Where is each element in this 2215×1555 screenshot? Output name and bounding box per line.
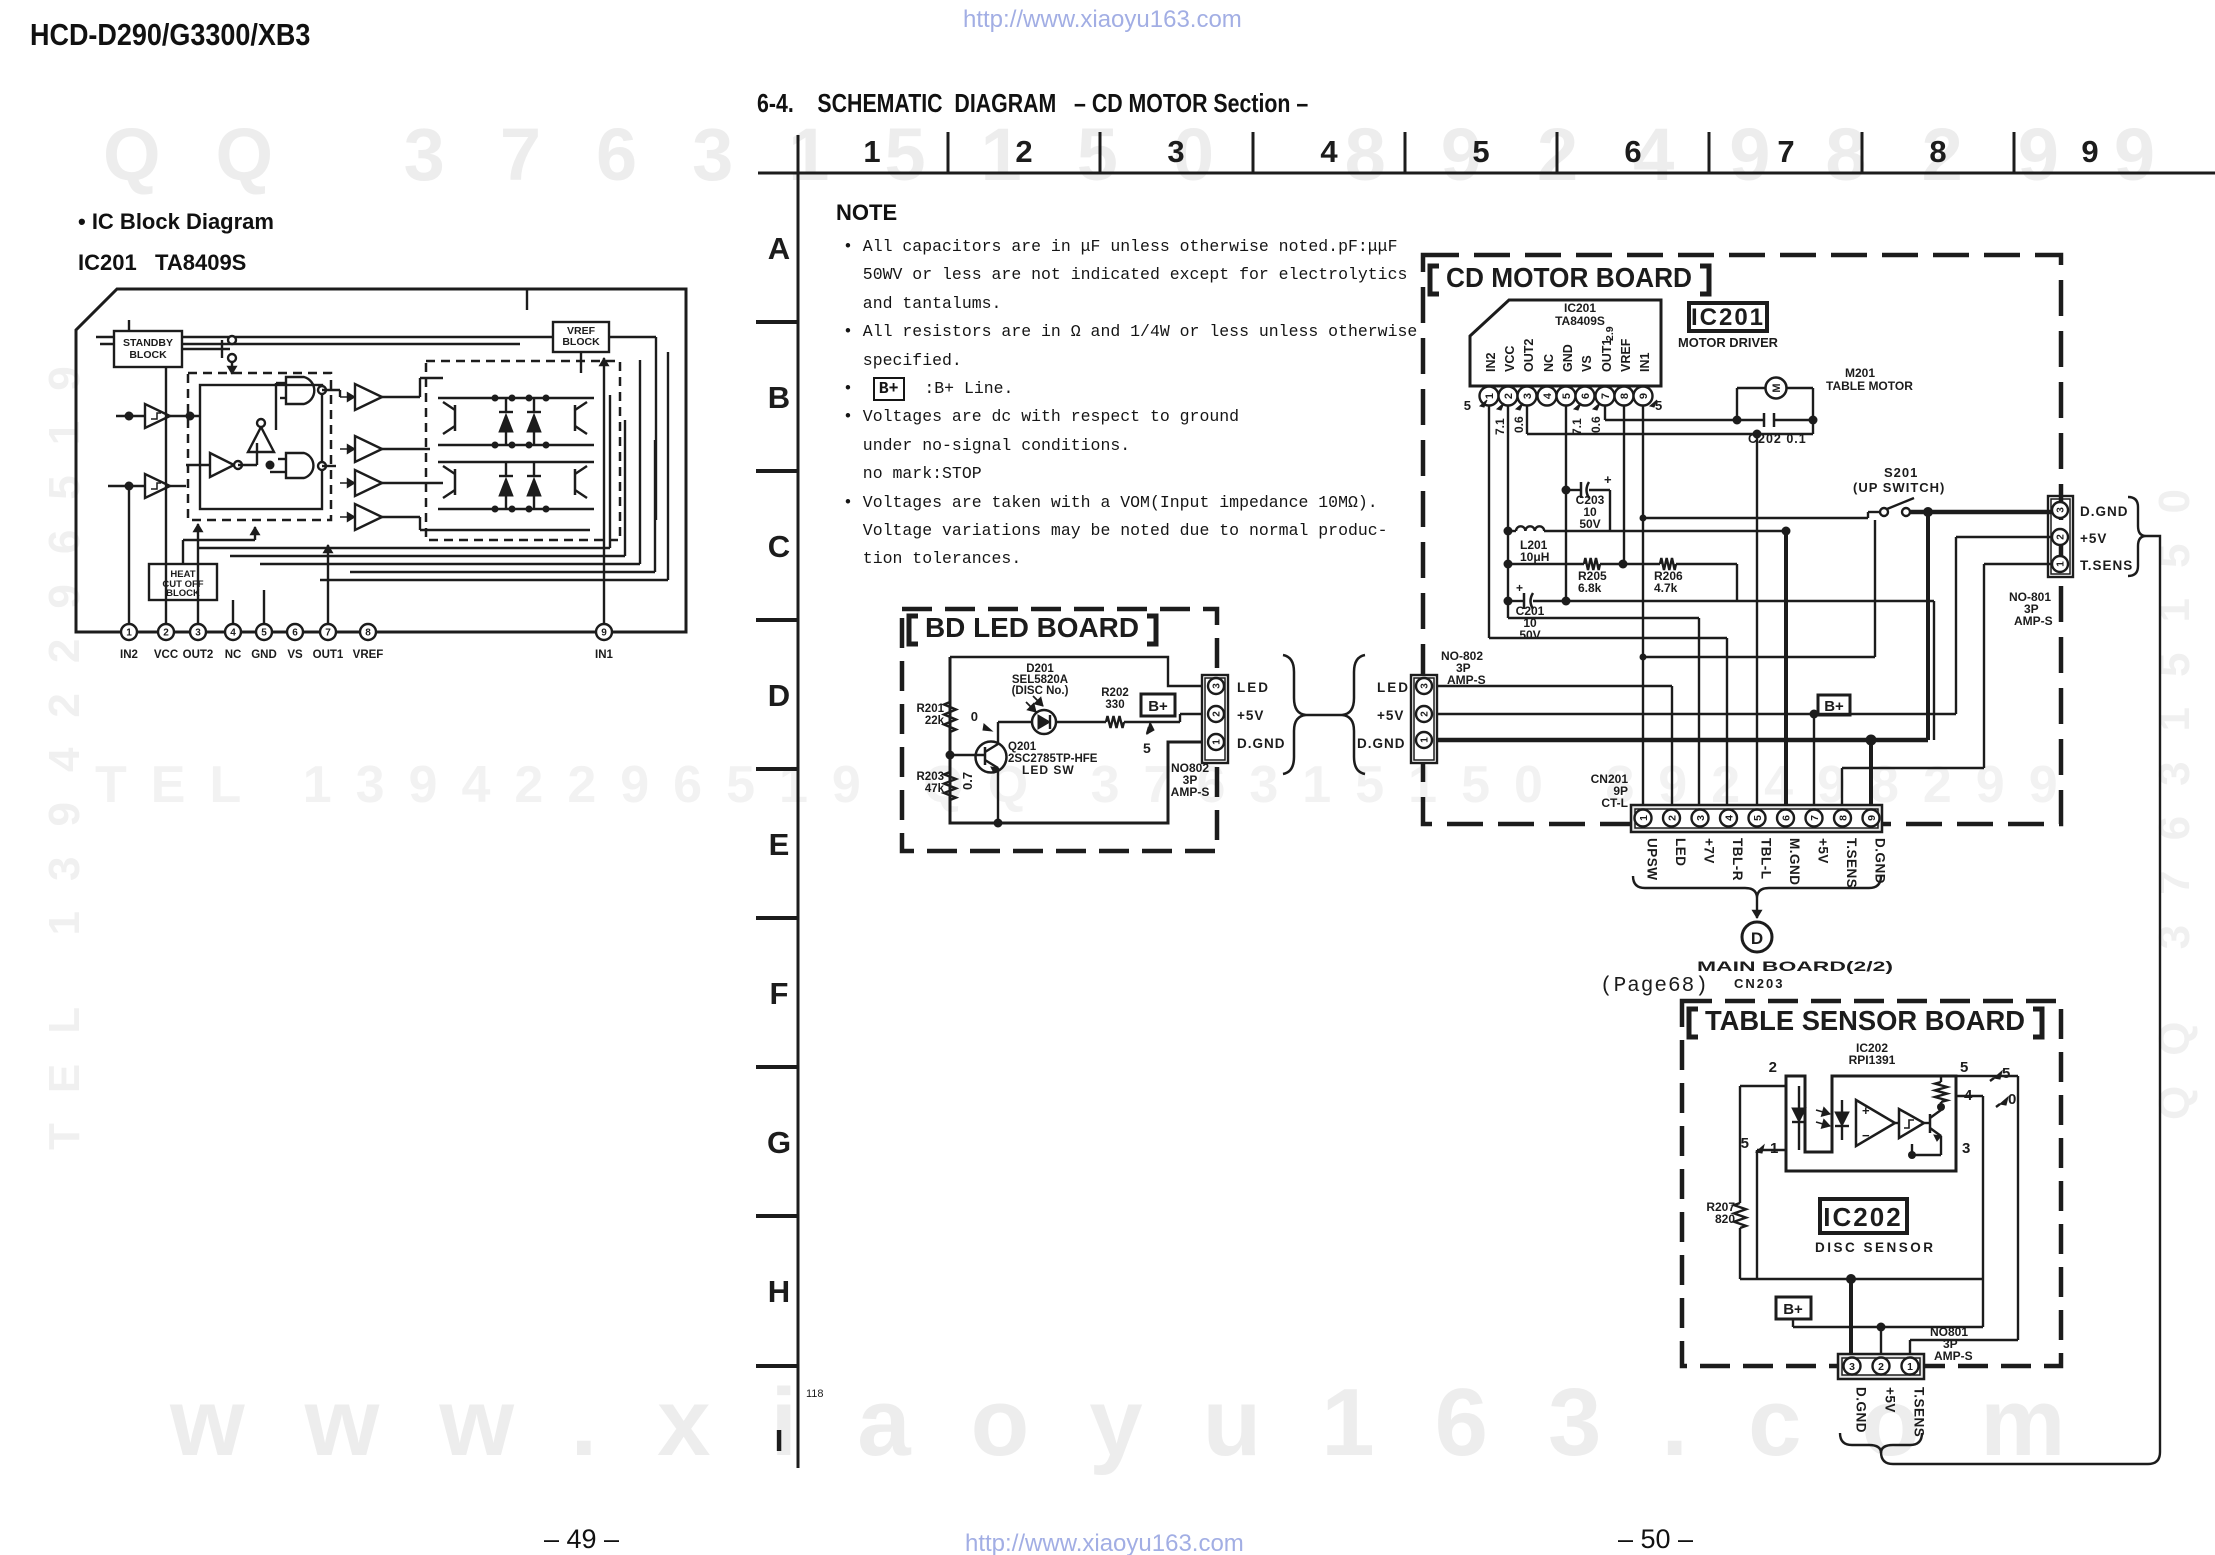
svg-text:+5V: +5V — [1816, 838, 1831, 864]
svg-text:2: 2 — [163, 628, 169, 639]
svg-text:6: 6 — [1780, 815, 1792, 821]
svg-text:LED: LED — [1673, 838, 1688, 867]
svg-text:5: 5 — [1464, 398, 1471, 413]
svg-text:AMP-S: AMP-S — [1934, 1349, 1973, 1363]
svg-text:1: 1 — [1484, 393, 1496, 399]
svg-text:1: 1 — [126, 628, 132, 639]
svg-text:2.9: 2.9 — [1604, 326, 1616, 341]
svg-text:F: F — [770, 976, 789, 1011]
svg-text:BLOCK: BLOCK — [129, 349, 167, 361]
svg-text:(UP SWITCH): (UP SWITCH) — [1853, 480, 1945, 495]
svg-text:5: 5 — [1143, 740, 1151, 756]
svg-text:GND: GND — [1561, 344, 1575, 372]
svg-text:LED: LED — [1237, 680, 1270, 695]
svg-text:1: 1 — [1770, 1140, 1778, 1157]
svg-text:4: 4 — [1542, 392, 1554, 399]
svg-text:4: 4 — [230, 628, 236, 639]
svg-text:1: 1 — [1907, 1361, 1913, 1373]
svg-text:C: C — [768, 529, 790, 564]
svg-text:GND: GND — [251, 649, 277, 661]
svg-text:5: 5 — [1741, 1135, 1749, 1152]
svg-text:I: I — [775, 1423, 784, 1458]
svg-text:UPSW: UPSW — [1645, 838, 1660, 881]
svg-text:+: + — [1862, 1103, 1870, 1118]
svg-text:B+: B+ — [1783, 1301, 1803, 1318]
svg-text:T.SENS: T.SENS — [1912, 1387, 1927, 1437]
svg-text:3: 3 — [1167, 134, 1184, 169]
svg-text:1: 1 — [1212, 739, 1223, 745]
svg-text:3: 3 — [1522, 393, 1534, 399]
svg-text:7: 7 — [325, 628, 331, 639]
svg-text:+5V: +5V — [1377, 708, 1404, 723]
svg-text:RPI1391: RPI1391 — [1849, 1053, 1896, 1067]
svg-text:OUT2: OUT2 — [183, 649, 214, 661]
svg-text:+5V: +5V — [2080, 531, 2107, 546]
svg-text:VS: VS — [287, 649, 303, 661]
svg-text:2: 2 — [2056, 534, 2067, 540]
svg-text:0: 0 — [971, 709, 978, 724]
svg-text:AMP-S: AMP-S — [2014, 614, 2053, 628]
svg-text:CT-L: CT-L — [1601, 796, 1628, 810]
svg-text:TBL-L: TBL-L — [1759, 838, 1774, 879]
svg-text:AMP-S: AMP-S — [1171, 785, 1210, 799]
svg-text:4.7k: 4.7k — [1654, 581, 1678, 595]
svg-text:IC201: IC201 — [1691, 304, 1765, 331]
svg-text:G: G — [767, 1125, 791, 1160]
svg-text:2: 2 — [1212, 711, 1223, 717]
svg-text:9: 9 — [1638, 393, 1650, 399]
svg-text:STANDBY: STANDBY — [123, 337, 173, 349]
svg-text:VCC: VCC — [1503, 346, 1517, 372]
svg-text:D.GND: D.GND — [1357, 736, 1406, 751]
svg-text:R203: R203 — [917, 771, 945, 783]
svg-text:LED SW: LED SW — [1022, 763, 1075, 777]
svg-text:9: 9 — [2081, 134, 2098, 169]
svg-text:IC202: IC202 — [1823, 1202, 1902, 1232]
svg-text:3: 3 — [195, 628, 201, 639]
svg-text:330: 330 — [1105, 699, 1124, 711]
svg-text:−: − — [1862, 1128, 1870, 1143]
svg-text:CN203: CN203 — [1734, 976, 1784, 991]
svg-text:Q201: Q201 — [1008, 741, 1037, 753]
svg-text:+7V: +7V — [1702, 838, 1717, 864]
svg-text:5: 5 — [2002, 1065, 2010, 1082]
svg-text:820: 820 — [1715, 1212, 1735, 1226]
svg-text:VREF: VREF — [1619, 338, 1633, 372]
svg-text:(Page68): (Page68) — [1600, 975, 1709, 998]
svg-text:5: 5 — [1752, 815, 1764, 821]
svg-text:7.1: 7.1 — [1570, 418, 1584, 435]
svg-text:VCC: VCC — [154, 649, 178, 661]
svg-text:NC: NC — [1542, 354, 1556, 372]
svg-text:BD LED BOARD: BD LED BOARD — [925, 612, 1139, 643]
svg-text:50V: 50V — [1519, 628, 1540, 642]
svg-text:3: 3 — [1695, 815, 1707, 821]
svg-text:TA8409S: TA8409S — [1555, 314, 1605, 328]
svg-text:OUT2: OUT2 — [1522, 339, 1536, 372]
svg-text:NC: NC — [225, 649, 242, 661]
svg-text:2: 2 — [1503, 393, 1515, 399]
svg-text:8: 8 — [1619, 393, 1631, 399]
svg-text:9: 9 — [1866, 815, 1878, 821]
svg-text:D.GND: D.GND — [1854, 1387, 1869, 1433]
svg-text:DISC SENSOR: DISC SENSOR — [1815, 1240, 1936, 1255]
svg-text:+5V: +5V — [1237, 708, 1264, 723]
svg-text:5: 5 — [1472, 134, 1489, 169]
svg-text:IN2: IN2 — [1484, 353, 1498, 373]
svg-text:2: 2 — [1420, 711, 1431, 717]
svg-text:6: 6 — [292, 628, 298, 639]
svg-text:+: + — [1516, 581, 1523, 595]
svg-text:T.SENS: T.SENS — [1844, 838, 1859, 888]
svg-text:R201: R201 — [917, 703, 945, 715]
svg-text:MAIN BOARD(2/2): MAIN BOARD(2/2) — [1697, 958, 1893, 974]
svg-text:R202: R202 — [1101, 687, 1129, 699]
svg-text:3: 3 — [1420, 683, 1431, 689]
svg-text:50V: 50V — [1579, 517, 1600, 531]
svg-text:5: 5 — [1561, 393, 1573, 399]
svg-text:B: B — [768, 380, 790, 415]
svg-text:IN1: IN1 — [1638, 353, 1652, 373]
svg-text:0.6: 0.6 — [1589, 416, 1603, 433]
svg-text:AMP-S: AMP-S — [1447, 673, 1486, 687]
svg-text:7: 7 — [1809, 815, 1821, 821]
svg-text:2: 2 — [1878, 1361, 1884, 1373]
svg-text:0: 0 — [2008, 1091, 2016, 1108]
svg-text:3: 3 — [1849, 1361, 1855, 1373]
svg-text:9: 9 — [601, 628, 607, 639]
svg-text:6.8k: 6.8k — [1578, 581, 1602, 595]
svg-text:TABLE MOTOR: TABLE MOTOR — [1826, 379, 1913, 393]
svg-text:TBL-R: TBL-R — [1730, 838, 1745, 881]
svg-text:3: 3 — [2056, 507, 2067, 513]
svg-text:5: 5 — [1960, 1059, 1968, 1076]
svg-text:D: D — [1751, 929, 1763, 948]
svg-text:D.GND: D.GND — [1237, 736, 1286, 751]
svg-text:8: 8 — [365, 628, 371, 639]
svg-text:2: 2 — [1015, 134, 1032, 169]
svg-text:7: 7 — [1600, 393, 1612, 399]
svg-text:D.GND: D.GND — [2080, 504, 2129, 519]
svg-text:OUT1: OUT1 — [1600, 339, 1614, 372]
svg-text:0.7: 0.7 — [960, 772, 975, 790]
svg-text:VS: VS — [1580, 355, 1594, 372]
svg-text:B+: B+ — [1148, 698, 1168, 715]
svg-text:M201: M201 — [1845, 366, 1875, 380]
svg-text:7.1: 7.1 — [1493, 418, 1507, 435]
svg-text:47k: 47k — [925, 783, 945, 795]
svg-text:10μH: 10μH — [1520, 550, 1549, 564]
svg-text:B+: B+ — [1824, 698, 1844, 715]
svg-text:6: 6 — [1624, 134, 1641, 169]
svg-text:M.GND: M.GND — [1787, 838, 1802, 886]
svg-text:E: E — [769, 827, 790, 862]
svg-text:118: 118 — [806, 1388, 824, 1400]
svg-text:6: 6 — [1580, 393, 1592, 399]
svg-text:1: 1 — [2056, 561, 2067, 567]
svg-text:4: 4 — [1320, 134, 1338, 169]
svg-text:4: 4 — [1723, 815, 1735, 821]
svg-text:CD MOTOR BOARD: CD MOTOR BOARD — [1446, 262, 1692, 293]
svg-text:7: 7 — [1777, 134, 1794, 169]
svg-text:1: 1 — [863, 134, 880, 169]
svg-text:A: A — [768, 231, 790, 266]
svg-text:VREF: VREF — [353, 649, 384, 661]
svg-text:T.SENS: T.SENS — [2080, 558, 2133, 573]
svg-text:1: 1 — [1420, 737, 1431, 743]
svg-text:8: 8 — [1837, 815, 1849, 821]
svg-text:+5V: +5V — [1883, 1387, 1898, 1413]
svg-text:BLOCK: BLOCK — [166, 588, 200, 599]
svg-text:8: 8 — [1929, 134, 1946, 169]
svg-text:22k: 22k — [925, 715, 945, 727]
svg-text:2: 2 — [1666, 815, 1678, 821]
svg-text:MOTOR DRIVER: MOTOR DRIVER — [1678, 335, 1779, 350]
svg-text:IN1: IN1 — [595, 649, 614, 661]
svg-text:2: 2 — [1769, 1059, 1777, 1076]
svg-text:LED: LED — [1377, 680, 1410, 695]
svg-text:S201: S201 — [1884, 465, 1918, 480]
svg-text:M: M — [1771, 383, 1783, 392]
svg-text:IN2: IN2 — [120, 649, 138, 661]
svg-text:3: 3 — [1212, 683, 1223, 689]
svg-text:1: 1 — [1638, 815, 1650, 821]
svg-text:OUT1: OUT1 — [313, 649, 344, 661]
svg-text:5: 5 — [261, 628, 267, 639]
svg-text:H: H — [768, 1274, 790, 1309]
svg-text:3: 3 — [1962, 1140, 1970, 1157]
svg-text:D: D — [768, 678, 790, 713]
svg-text:0.6: 0.6 — [1512, 416, 1526, 433]
svg-text:+: + — [1604, 472, 1612, 487]
svg-text:TABLE SENSOR BOARD: TABLE SENSOR BOARD — [1705, 1005, 2025, 1036]
svg-text:IC201: IC201 — [1564, 301, 1596, 315]
svg-text:(DISC No.): (DISC No.) — [1012, 685, 1069, 697]
svg-text:BLOCK: BLOCK — [562, 336, 600, 348]
